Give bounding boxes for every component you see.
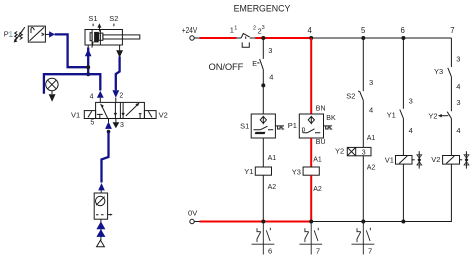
- valve port 1 connection dot: [107, 130, 111, 134]
- wire P1 output to junction A: [55, 34, 88, 67]
- wire V2 coil to 0V rail: [403, 164, 451, 221]
- svg-text:A2: A2: [313, 186, 322, 193]
- svg-text:3: 3: [456, 55, 460, 64]
- node 6 dot: [401, 36, 405, 40]
- svg-text:BU: BU: [316, 139, 326, 146]
- wire node6 down to Y1 contact: [402, 38, 404, 109]
- svg-text:4: 4: [456, 126, 460, 135]
- svg-text:3: 3: [362, 150, 366, 157]
- flow arrow supply 2: [96, 229, 105, 237]
- sensor actuation slash: [92, 42, 93, 48]
- wire S2 to Y2 coil: [362, 100, 364, 147]
- node 2 dot: [261, 36, 265, 40]
- wire V1 coil to 0V rail: [402, 164, 404, 221]
- svg-text:Y1: Y1: [244, 167, 253, 176]
- cylinder piston rod: [103, 35, 140, 39]
- compressed air source: [97, 240, 105, 247]
- V2 valve link symbol: [465, 151, 467, 168]
- svg-text:3: 3: [262, 25, 265, 31]
- svg-text:BN: BN: [316, 105, 326, 112]
- contact mirror of Y1: [252, 222, 275, 255]
- wire junction A to indicator: [44, 74, 88, 94]
- svg-text:Y3: Y3: [292, 167, 301, 176]
- svg-text:S1: S1: [88, 14, 97, 23]
- wire junction A to valve port 4: [88, 74, 100, 90]
- svg-text:Y1: Y1: [387, 111, 396, 120]
- exhaust indicator (circle with cross): [46, 78, 58, 90]
- contact mirror of Y3: [299, 222, 322, 255]
- wire Y3 coil to 0V rail (red): [310, 175, 312, 221]
- svg-text:6: 6: [268, 246, 272, 255]
- flow arrow down on right port wire: [116, 50, 123, 57]
- valve right chamber path 4-5: [122, 102, 124, 118]
- node A2 junction dot: [86, 72, 90, 76]
- pressure switch P1 output lead: [45, 33, 49, 35]
- exhaust arrow below indicator: [49, 94, 56, 102]
- svg-text:V1: V1: [385, 155, 394, 164]
- V1 valve link symbol: [418, 151, 420, 168]
- wire Y3 contact to Y2 contact: [450, 77, 452, 112]
- flow arrow into valve port 2: [112, 90, 119, 97]
- wire switch E to S1 box: [262, 70, 264, 114]
- wire cylinder right port to valve port 2: [116, 57, 120, 91]
- sensor S2 position tick: [113, 24, 115, 27]
- 0V rail dot at path4: [309, 220, 313, 224]
- junction dot below switch E: [261, 83, 265, 87]
- wire node5 down to S2: [362, 38, 364, 91]
- svg-text:2: 2: [119, 93, 123, 100]
- cylinder piston (magnet): [94, 32, 99, 43]
- flow arrow up on left port wire: [85, 49, 92, 56]
- P1 pin marker: [324, 126, 333, 129]
- valve right chamber blocked port 3: [139, 114, 142, 119]
- piston position arrow: [97, 23, 101, 27]
- svg-text:EMERGENCY: EMERGENCY: [234, 4, 291, 14]
- contact mirror of Y2: [352, 222, 375, 255]
- 5/2-way valve body: [96, 102, 145, 118]
- flow arrow into air service unit: [98, 183, 105, 190]
- 0V rail dot at path5: [361, 220, 365, 224]
- 0V rail dot at path6: [401, 220, 405, 224]
- svg-text:+24V: +24V: [182, 26, 198, 35]
- pressure switch P1 adjustment arrow: [15, 27, 25, 41]
- svg-text:V2: V2: [431, 155, 440, 164]
- svg-text:S2: S2: [346, 91, 355, 100]
- node 5 dot: [361, 36, 365, 40]
- wire cylinder left port down to junction A: [87, 48, 89, 75]
- svg-text:6: 6: [401, 26, 405, 35]
- wire Y1 coil to 0V rail: [262, 175, 264, 221]
- exhaust arrow at valve port 3: [113, 122, 120, 128]
- wire Y2 coil to 0V rail: [362, 156, 364, 222]
- svg-text:E: E: [252, 61, 257, 68]
- cylinder body: [85, 30, 122, 46]
- svg-text:4: 4: [308, 26, 313, 35]
- emergency switch S0 (NC pushbutton with detent): [241, 34, 250, 38]
- 0V rail dot at path2: [261, 220, 265, 224]
- flow arrow supply 1: [96, 221, 105, 229]
- svg-text:5: 5: [90, 120, 94, 127]
- svg-text:Y2: Y2: [428, 111, 437, 120]
- wire Y2 contact to V2 coil: [450, 119, 452, 156]
- cylinder right port stub: [119, 45, 121, 50]
- svg-text:4: 4: [269, 72, 273, 81]
- wire node4 down to P1 (red): [310, 38, 312, 114]
- svg-text:ON/OFF: ON/OFF: [209, 61, 244, 72]
- valve left chamber path 2-3: [114, 102, 116, 118]
- svg-text:A2: A2: [268, 184, 277, 191]
- svg-text:4: 4: [90, 93, 94, 100]
- svg-text:3: 3: [268, 46, 272, 55]
- flow arrow at P1 output: [49, 31, 55, 37]
- svg-text:Y2: Y2: [335, 147, 344, 156]
- svg-text:A1: A1: [313, 156, 322, 163]
- S1 pin marker: [275, 126, 284, 129]
- svg-text:A1: A1: [367, 135, 376, 142]
- pressure switch P1 spring: [15, 32, 18, 40]
- flow arrow into valve port 4: [97, 91, 104, 98]
- svg-text:7: 7: [316, 246, 320, 255]
- wire +24V to emergency switch (red): [200, 37, 237, 39]
- svg-text:1: 1: [234, 25, 237, 31]
- svg-text:A2: A2: [367, 165, 376, 172]
- wire valve port 1 to air service unit: [102, 132, 109, 183]
- +24V rail node4 to node7: [311, 37, 451, 39]
- 0V rail red segment: [200, 221, 312, 223]
- valve right chamber flow path 1-2: [126, 105, 138, 116]
- valve port 1 stub: [108, 119, 110, 123]
- sensor S1 position tick: [92, 24, 94, 27]
- svg-text:V2: V2: [159, 110, 168, 119]
- svg-text:A1: A1: [268, 155, 277, 162]
- valve left chamber blocked port 5: [97, 114, 103, 118]
- svg-text:Y3: Y3: [434, 67, 443, 76]
- svg-text:0V: 0V: [188, 208, 198, 217]
- cylinder left port stub: [87, 45, 89, 49]
- air service / shut-off unit: [94, 193, 107, 219]
- valve left chamber flow path 1-4: [102, 105, 108, 118]
- supply line below unit: [100, 219, 102, 240]
- wire node7 down: [450, 38, 452, 67]
- svg-text:7: 7: [450, 26, 454, 35]
- wire S1 to Y1 coil: [262, 138, 264, 167]
- svg-text:3: 3: [409, 97, 413, 106]
- flow arrow into valve port 1: [105, 122, 112, 129]
- svg-text:P1: P1: [288, 121, 297, 130]
- node A1 junction dot: [86, 65, 90, 69]
- valve port 3 stub: [115, 119, 117, 123]
- svg-text:7: 7: [368, 246, 372, 255]
- svg-text:S2: S2: [109, 14, 118, 23]
- svg-text:S1: S1: [240, 122, 249, 131]
- pressure switch P1 body: [28, 26, 45, 42]
- wire P1 to Y3 coil (red): [310, 138, 312, 167]
- wire node2 to node4 (red): [255, 37, 311, 39]
- svg-text:3: 3: [456, 98, 460, 107]
- svg-text:3: 3: [369, 78, 373, 87]
- svg-text:5: 5: [361, 26, 366, 35]
- svg-text:3: 3: [120, 122, 124, 129]
- 0V rail black segment: [311, 221, 403, 223]
- svg-text:4: 4: [456, 82, 460, 91]
- node 4 dot: [309, 36, 313, 40]
- svg-text:BK: BK: [326, 115, 336, 122]
- svg-text:2: 2: [253, 25, 256, 31]
- svg-text:V1: V1: [71, 110, 80, 119]
- wire node2 down to ON/OFF switch: [262, 38, 264, 59]
- svg-text:4: 4: [409, 126, 413, 135]
- cursor mark: [10, 32, 12, 36]
- wire Y1 contact to V1 coil: [402, 118, 404, 155]
- svg-text:4: 4: [369, 106, 373, 115]
